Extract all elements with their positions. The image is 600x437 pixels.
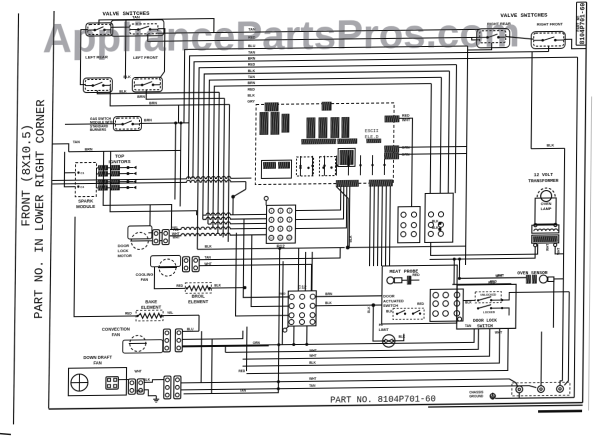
bottom right rule — [538, 410, 582, 413]
wire cooling fan WHT — [199, 264, 312, 292]
svg-text:GROUND: GROUND — [469, 394, 484, 398]
board bottom connector strip 1 — [336, 180, 358, 186]
wire bottom bus 3 WHT — [243, 329, 490, 360]
svg-text:RED: RED — [176, 284, 183, 288]
svg-text:12 VOLT: 12 VOLT — [534, 172, 554, 178]
svg-text:BRN: BRN — [248, 81, 256, 85]
svg-text:TOP: TOP — [115, 154, 124, 159]
svg-text:BLK: BLK — [248, 69, 256, 73]
wire riser pair center — [278, 248, 281, 344]
svg-text:TAN: TAN — [309, 384, 316, 388]
svg-text:RED: RED — [248, 36, 256, 40]
wire P12 pigtail — [264, 196, 268, 200]
wire staircase vertical 1 — [103, 151, 172, 231]
svg-text:RED: RED — [125, 311, 132, 315]
board relay contacts — [299, 156, 301, 176]
door lock switch box — [457, 284, 516, 329]
svg-text:BLK: BLK — [123, 75, 131, 79]
svg-text:COOLING: COOLING — [136, 273, 154, 277]
svg-text:BLK: BLK — [399, 335, 406, 339]
svg-text:TAN: TAN — [465, 324, 472, 328]
svg-text:WHT: WHT — [204, 262, 211, 266]
svg-text:SWITCH: SWITCH — [383, 304, 398, 308]
valve switch left front lower — [132, 77, 162, 92]
wire down draft links — [118, 379, 128, 381]
connector mid right circles 2 — [428, 212, 433, 217]
wire C12 right BLK — [316, 304, 373, 307]
left margin rule — [14, 13, 19, 424]
wire mid horizontal to right — [348, 246, 466, 247]
svg-text:C1: C1 — [80, 171, 84, 175]
board bottom connector strip 2 — [369, 180, 392, 186]
wire bus 4 corner — [189, 52, 532, 123]
wire transformer bottom left — [430, 246, 536, 259]
svg-text:FAN: FAN — [93, 360, 101, 365]
wire TAN to spark module — [53, 144, 69, 152]
svg-text:WHT: WHT — [134, 369, 141, 373]
control board dashed enclosure — [255, 103, 394, 185]
wire hi limit leads — [373, 305, 383, 341]
svg-text:BRN: BRN — [137, 95, 145, 99]
svg-text:VALVE SWITCHES: VALVE SWITCHES — [102, 10, 150, 18]
svg-text:DOOR: DOOR — [383, 294, 395, 298]
wire bus left starts — [224, 345, 226, 352]
wire door lock internal — [463, 299, 475, 301]
wire spark feed 2 — [64, 173, 75, 187]
wire bottom bus 2 WHT — [224, 345, 226, 352]
convection fan loop — [123, 340, 163, 353]
wire junction BLK right — [346, 246, 350, 250]
cooling fan connector b — [192, 257, 199, 272]
wire bake right YEL — [163, 314, 199, 316]
wire C12 right BRN — [316, 295, 382, 298]
wire cooling fan TAN — [199, 248, 340, 260]
wire door motor links — [148, 232, 152, 234]
wire bus 7 corner — [203, 71, 450, 219]
wire broil right BLK — [211, 287, 245, 289]
wire bottom bus 8 TAN — [184, 345, 279, 394]
terminal circle 1 — [516, 386, 523, 393]
svg-text:RED: RED — [412, 273, 420, 277]
wire cluster feeds — [411, 194, 413, 207]
svg-text:WHT: WHT — [546, 244, 550, 251]
svg-text:DOOR: DOOR — [118, 244, 130, 248]
svg-text:BRN: BRN — [149, 101, 157, 105]
svg-text:IGNITORS: IGNITORS — [108, 159, 130, 164]
wire bus 5 corner — [193, 57, 578, 178]
wire convection BLU — [182, 330, 199, 332]
svg-text:WHT: WHT — [309, 354, 316, 358]
bake element resistor — [138, 313, 161, 318]
svg-text:C4: C4 — [80, 185, 84, 189]
wire sensor feeders down — [453, 259, 455, 284]
wire long vertical x466 — [466, 46, 468, 265]
svg-text:LAMP: LAMP — [541, 207, 552, 211]
wire C12 bottom feeds — [293, 326, 295, 345]
svg-text:BLK: BLK — [248, 93, 256, 97]
wire diagonal to junction — [233, 189, 246, 196]
svg-text:YEL: YEL — [173, 228, 179, 232]
spark module box — [75, 162, 96, 196]
wire sensor drop — [552, 279, 554, 328]
bake element box — [136, 310, 163, 321]
wire gas junction verticals — [174, 123, 177, 200]
svg-text:TAN: TAN — [248, 75, 255, 79]
board transformer block 1 — [260, 112, 268, 134]
svg-text:MODULE: MODULE — [76, 204, 95, 209]
svg-text:ESCII: ESCII — [365, 128, 379, 134]
svg-text:BLK: BLK — [547, 143, 555, 147]
svg-text:ELEMENT: ELEMENT — [141, 304, 161, 309]
wire P12 right feeds — [296, 187, 341, 211]
drawing frame bottom edge — [49, 403, 583, 409]
meat probe enclosure — [382, 265, 458, 324]
svg-text:LOCK: LOCK — [118, 249, 129, 253]
wire bus 10 corner — [218, 92, 219, 233]
wire ignitor feeds — [95, 168, 97, 188]
door lock motor — [131, 232, 148, 249]
wire hump row 2 — [52, 180, 246, 184]
wire right switch links — [506, 36, 534, 39]
wire staircase vertical 2 — [110, 150, 197, 216]
svg-text:BLK: BLK — [349, 235, 353, 243]
terminal circle 3 — [557, 385, 564, 392]
wire bottom bus 1 ORN — [182, 329, 474, 346]
down draft third connector — [164, 376, 171, 399]
wire S1 left down to S3 — [80, 30, 88, 85]
svg-text:YEL: YEL — [167, 311, 173, 315]
board top edge connectors — [265, 103, 278, 111]
meat probe symbol — [387, 277, 394, 284]
valve switch left rear — [86, 23, 113, 36]
wire S2 right down — [157, 29, 164, 79]
wire bus 9 corner — [213, 84, 431, 229]
connector door 3x3 — [430, 289, 463, 321]
wire long vertical x530 — [530, 52, 533, 149]
oven sensor symbol — [526, 275, 530, 283]
svg-text:TAN: TAN — [73, 140, 81, 144]
transformer terminals — [534, 224, 537, 227]
terminal circle 2 — [538, 386, 545, 393]
valve switch left front — [111, 20, 164, 37]
svg-text:RED: RED — [248, 87, 256, 91]
svg-text:RED: RED — [238, 369, 245, 373]
cooling fan connector a — [182, 257, 189, 272]
transformer coil lower — [532, 235, 559, 243]
svg-text:WHT: WHT — [309, 349, 316, 353]
door lock motor connector a — [152, 230, 159, 245]
wire P12 bottom feed — [197, 248, 344, 250]
valve switch left rear lower — [83, 78, 112, 93]
wire YEL — [169, 231, 266, 232]
svg-text:BLK: BLK — [309, 361, 316, 365]
svg-text:BLK: BLK — [386, 309, 393, 313]
svg-text:PART NO. 8104P701-60: PART NO. 8104P701-60 — [330, 394, 436, 405]
spark module input contacts — [77, 171, 79, 173]
convection fan connector a — [163, 329, 170, 352]
wire transformer bottom right — [555, 246, 564, 254]
svg-text:BLU: BLU — [248, 44, 256, 48]
board mid hatched strip row — [302, 139, 336, 144]
wire bus 11 corner — [223, 98, 224, 237]
wire bus 3 corner — [184, 46, 468, 123]
cooling fan motor — [159, 259, 176, 276]
wire gas module drop to spark — [65, 123, 116, 126]
wire board drop bundle — [348, 186, 351, 247]
svg-text:RED: RED — [488, 281, 495, 285]
wire down draft out runs — [181, 376, 459, 379]
svg-text:TAN: TAN — [248, 51, 255, 55]
wire bottom bus 6 WHT — [181, 379, 518, 390]
wire C12 left lower — [236, 241, 289, 316]
wire convection low — [182, 346, 268, 347]
wire convection mid — [182, 331, 243, 340]
wire cluster bottom run WHT — [431, 241, 538, 255]
wire terminal risers — [540, 332, 543, 386]
svg-text:TRANSFORMER: TRANSFORMER — [528, 178, 559, 184]
connector mid right block — [425, 193, 453, 242]
convection fan motor — [130, 335, 146, 351]
wire meat probe lead — [402, 279, 408, 281]
svg-text:BLU: BLU — [187, 327, 194, 331]
svg-text:DOOR LOCK: DOOR LOCK — [473, 319, 497, 324]
down draft fan enclosure — [68, 368, 126, 396]
svg-text:GRY: GRY — [247, 100, 255, 104]
wire left verticals continue — [243, 219, 245, 262]
wire C12 left feeds — [243, 261, 288, 297]
wire bottom bus 5 RED — [246, 328, 508, 373]
switch gas module — [113, 116, 141, 130]
svg-text:LOCKED: LOCKED — [483, 310, 495, 314]
broil element resistor — [187, 286, 209, 291]
wire bus 12 corner — [228, 104, 229, 241]
svg-text:SPARK: SPARK — [78, 198, 94, 203]
wire bake feeds — [198, 315, 200, 331]
board output connector RED — [385, 116, 399, 122]
board relay coil — [338, 148, 355, 166]
door lock motor connector b — [162, 230, 169, 245]
svg-text:TAN: TAN — [205, 255, 212, 259]
svg-text:PART NO. IN LOWER RIGHT CORNER: PART NO. IN LOWER RIGHT CORNER — [32, 99, 48, 319]
wire staircase stub to motor loop — [149, 205, 151, 226]
wire bus 8 corner — [208, 77, 441, 224]
svg-text:BLK: BLK — [205, 245, 213, 249]
svg-text:BLK: BLK — [325, 301, 332, 305]
svg-text:BLK: BLK — [432, 219, 439, 223]
wire bus 6 corner — [197, 65, 456, 250]
wire S4 bottom BRN run — [146, 89, 224, 99]
svg-text:RED: RED — [248, 63, 256, 67]
svg-text:RIGHT FRONT: RIGHT FRONT — [537, 22, 564, 26]
terminal block dashed box — [512, 382, 570, 396]
transformer coil upper — [532, 225, 559, 233]
wire long vertical x576 — [574, 57, 577, 397]
down draft fan motor — [71, 374, 88, 391]
broil element box — [185, 283, 211, 294]
svg-text:BRN: BRN — [144, 118, 152, 122]
svg-text:TAN: TAN — [248, 28, 255, 32]
oven lamp dashed dome — [537, 188, 555, 197]
wire BRN lower run — [110, 85, 230, 106]
board output connector ORN — [385, 146, 399, 152]
wire P12 left feeds — [203, 212, 267, 215]
ignitor block row 1 — [98, 166, 107, 171]
oven lamp body — [535, 198, 556, 224]
wire bottom bus 7 TAN — [181, 386, 537, 392]
wire C12 top feeds — [297, 248, 299, 291]
door lock switch contacts — [477, 299, 479, 301]
bottom left tick — [0, 433, 11, 434]
board dashed relay boxes — [296, 157, 313, 176]
wire S3 bottom run BLK — [97, 89, 219, 94]
chassis ground symbol — [490, 394, 495, 399]
wire long vertical x564 — [562, 148, 564, 381]
wire bus tan 1 — [158, 29, 480, 33]
svg-text:BLK: BLK — [367, 306, 371, 313]
svg-text:BLK: BLK — [214, 283, 221, 287]
connector P12 — [266, 205, 295, 243]
down draft connector pair — [128, 379, 135, 394]
wire left valve top run — [99, 19, 214, 34]
svg-text:OVEN: OVEN — [541, 202, 552, 206]
wire oven sensor right lead — [554, 278, 564, 280]
door lock motor loop — [128, 226, 152, 239]
wire right rear bottom — [468, 43, 492, 50]
svg-text:BRN: BRN — [248, 57, 256, 61]
svg-text:RED: RED — [417, 302, 424, 306]
convection fan connector b — [175, 329, 182, 352]
svg-text:TAN: TAN — [240, 389, 247, 393]
hi limit thermostat — [383, 335, 396, 348]
wire RED along door box top — [452, 283, 511, 286]
svg-text:LEFT FRONT: LEFT FRONT — [133, 55, 158, 60]
wire center vertical x124 — [124, 20, 127, 80]
wire oven sensor WHT lead — [459, 277, 526, 280]
valve switch right front — [531, 31, 565, 48]
wire right front bottom — [548, 46, 550, 52]
svg-text:RIGHT REAR: RIGHT REAR — [487, 22, 511, 26]
wire hump row 1 — [52, 176, 251, 180]
svg-text:SWITCH: SWITCH — [477, 324, 493, 329]
wire bottom bus 4 BLK — [243, 328, 500, 366]
wire junction run — [245, 182, 247, 190]
svg-text:LEFT REAR: LEFT REAR — [85, 54, 108, 59]
svg-text:UNLOCKED: UNLOCKED — [480, 293, 496, 297]
wire convection feeds up — [198, 321, 200, 332]
wire RED run right — [398, 118, 412, 194]
wire door lock riser to terminal 3 — [564, 292, 569, 386]
wire BRN spark feed — [64, 152, 75, 173]
svg-text:ACTUATED: ACTUATED — [383, 299, 404, 303]
svg-text:MOTOR: MOTOR — [118, 254, 132, 258]
svg-text:FAN: FAN — [112, 332, 120, 337]
wire bake riser — [198, 321, 200, 331]
drawing frame left edge — [49, 11, 54, 409]
wire bus 2 — [148, 30, 480, 41]
C12 pigtail — [283, 328, 287, 332]
wire BLK to transformer — [531, 147, 565, 149]
door actuated switch contacts — [393, 308, 424, 319]
page edge shadow — [589, 97, 592, 411]
wire S1-S2 link — [111, 26, 130, 28]
svg-text:BLK: BLK — [143, 378, 150, 382]
svg-text:WHT: WHT — [495, 274, 502, 278]
svg-text:ORN: ORN — [253, 341, 261, 345]
svg-text:FAN: FAN — [141, 278, 149, 282]
cooling fan loop — [151, 255, 181, 266]
svg-text:HI: HI — [379, 323, 383, 327]
svg-text:WHT: WHT — [495, 331, 502, 335]
svg-text:BLK: BLK — [432, 226, 439, 230]
wire gas module junction BRN — [139, 122, 189, 125]
wire junction into box — [373, 304, 382, 306]
wire ORN runs right — [399, 146, 467, 149]
svg-text:RED: RED — [402, 114, 410, 118]
svg-text:BURNERS: BURNERS — [90, 128, 107, 132]
svg-text:BLK: BLK — [465, 300, 472, 304]
door lock switch dashed — [475, 292, 501, 303]
drawing frame right edge — [583, 3, 587, 403]
svg-text:RED: RED — [136, 389, 143, 393]
wire box top entry — [465, 264, 467, 266]
part number box top right — [575, 2, 577, 45]
wire door connector feeds top — [435, 265, 437, 289]
wire ground run — [495, 396, 574, 399]
svg-text:LIMIT: LIMIT — [379, 328, 390, 332]
wire lamp to coil — [539, 224, 541, 225]
svg-text:ELEMENT: ELEMENT — [188, 299, 208, 304]
wire transformer top from x564 — [555, 148, 564, 196]
svg-text:BLK: BLK — [119, 90, 127, 94]
wire bus risers left — [200, 331, 203, 383]
down draft connector 2x2 — [106, 377, 119, 390]
svg-text:WHT: WHT — [173, 235, 180, 239]
wire meat probe box top feeds — [369, 265, 371, 267]
svg-text:BRN: BRN — [325, 292, 333, 296]
wire bake left RED — [74, 216, 137, 317]
board transformer block 2 — [307, 118, 315, 138]
board lower relays — [261, 160, 291, 178]
svg-text:WHT: WHT — [309, 377, 316, 381]
svg-text:BRN: BRN — [85, 147, 93, 151]
svg-text:VALVE SWITCHES: VALVE SWITCHES — [500, 12, 548, 20]
wire broil left RED — [154, 266, 185, 288]
ground chassis small — [155, 396, 157, 400]
valve switch right rear — [477, 29, 510, 48]
svg-text:8104P701-60: 8104P701-60 — [579, 3, 586, 45]
